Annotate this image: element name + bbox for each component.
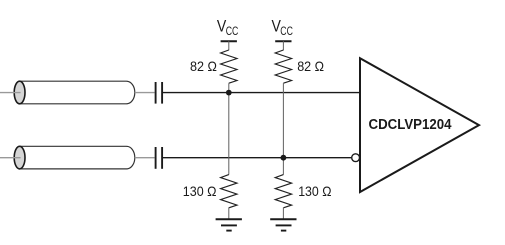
vertical wire net2: R2 bottom crossing top net down to node B and R4 xyxy=(282,83,284,174)
resistor R4 130ohm (bottom right) xyxy=(275,175,291,219)
node B junction dot xyxy=(281,155,287,161)
capacitor C2 xyxy=(156,147,163,169)
Vcc label 2 xyxy=(272,17,294,38)
capacitor C1 xyxy=(156,82,163,104)
wire C1 to triangle (top net) xyxy=(163,92,360,94)
op-amp / buffer U1 triangle xyxy=(360,58,479,192)
wire coax2 to C2 xyxy=(135,157,155,159)
resistor R2 82ohm (top right pull-up) xyxy=(275,41,291,83)
ground symbol 1 xyxy=(216,219,242,230)
coax cable 2 (bottom) xyxy=(14,146,135,169)
svg-text:CC: CC xyxy=(226,24,239,38)
svg-text:CDCLVP1204: CDCLVP1204 xyxy=(369,116,452,133)
resistor R3 130ohm (bottom left) xyxy=(221,175,237,219)
svg-text:82 Ω: 82 Ω xyxy=(190,59,217,74)
svg-text:130 Ω: 130 Ω xyxy=(183,184,217,199)
Vcc rail bar 1 xyxy=(221,40,237,42)
svg-text:82 Ω: 82 Ω xyxy=(297,59,324,74)
node A junction dot xyxy=(226,90,232,96)
resistor R1 82ohm (top left pull-up) xyxy=(221,41,237,83)
inverting input bubble xyxy=(352,154,360,162)
ground symbol 2 xyxy=(270,219,296,230)
vertical wire net1: R1 bottom through node A down to R3 xyxy=(228,83,230,174)
wire coax1 to C1 xyxy=(135,92,155,94)
Vcc label 1 xyxy=(217,17,239,38)
Vcc rail bar 2 xyxy=(275,40,291,42)
svg-text:130 Ω: 130 Ω xyxy=(298,184,331,199)
coax cable 1 (top) xyxy=(14,81,135,104)
wire input stub to coax 2 xyxy=(0,157,21,159)
wire input stub to coax 1 xyxy=(0,92,21,94)
wire C2 to inverting bubble (bottom net) xyxy=(163,157,351,159)
svg-text:CC: CC xyxy=(280,24,293,38)
